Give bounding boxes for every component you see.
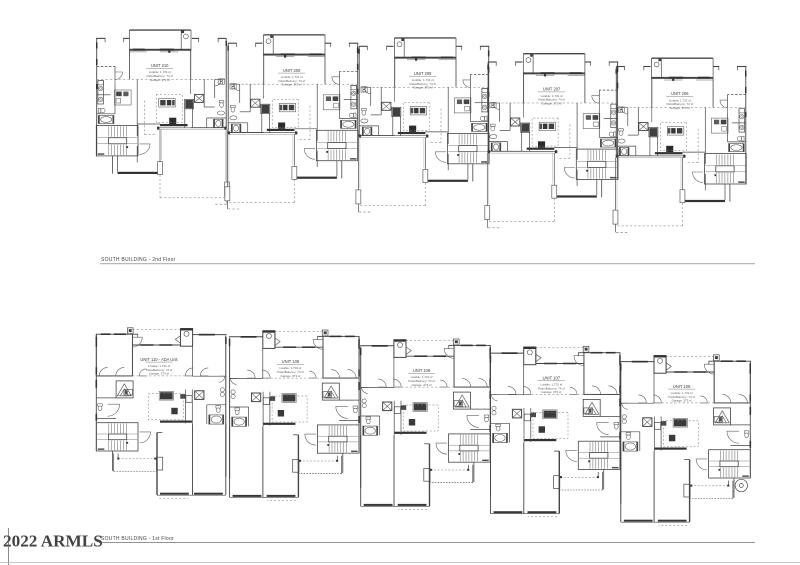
svg-text:UNIT 207: UNIT 207	[543, 87, 561, 92]
svg-text:Garage: 373 sf: Garage: 373 sf	[672, 399, 692, 403]
bottom rule	[0, 562, 800, 564]
unit 108 floor plan (1st floor)	[360, 339, 491, 510]
unit 110 floor plan (1st floor)	[96, 328, 227, 499]
rule line 2nd floor	[100, 263, 755, 265]
svg-text:UNIT 208: UNIT 208	[414, 71, 432, 76]
left margin tick	[8, 528, 10, 565]
svg-text:2022 ARMLS: 2022 ARMLS	[3, 532, 103, 551]
unit 208 floor plan (2nd floor)	[356, 37, 490, 212]
svg-text:UNIT 206: UNIT 206	[671, 91, 689, 96]
svg-text:UNIT 210: UNIT 210	[151, 63, 169, 68]
svg-text:Garage: 373 sf: Garage: 373 sf	[670, 106, 690, 110]
spiral stair circle unit 106	[735, 479, 747, 491]
rule line 1st floor	[99, 542, 755, 544]
unit 109 floor plan (1st floor)	[229, 330, 360, 501]
svg-text:SOUTH BUILDING - 2nd Floor: SOUTH BUILDING - 2nd Floor	[101, 257, 176, 263]
svg-text:Garage: 373 sf: Garage: 373 sf	[413, 86, 433, 90]
svg-text:UNIT 209: UNIT 209	[283, 68, 301, 73]
svg-text:SOUTH BUILDING - 1st Floor: SOUTH BUILDING - 1st Floor	[101, 536, 174, 542]
svg-text:UNIT 106: UNIT 106	[673, 384, 691, 389]
svg-text:Garage: 373 sf: Garage: 373 sf	[412, 383, 432, 387]
svg-text:UNIT 107: UNIT 107	[543, 375, 561, 380]
svg-text:UNIT 110 - ADA Unit: UNIT 110 - ADA Unit	[140, 357, 178, 362]
svg-text:Garage: 373 sf: Garage: 373 sf	[282, 83, 302, 87]
svg-text:Garage: 373 sf: Garage: 373 sf	[150, 78, 170, 82]
svg-text:UNIT 109: UNIT 109	[282, 359, 300, 364]
unit 206 floor plan (2nd floor)	[613, 58, 747, 233]
unit 207 floor plan (2nd floor)	[485, 53, 619, 228]
unit 210 floor plan (2nd floor)	[96, 29, 230, 204]
unit 106 floor plan (1st floor)	[620, 355, 751, 526]
svg-text:Garage: 373 sf: Garage: 373 sf	[542, 101, 562, 105]
svg-text:Garage: 373 sf: Garage: 373 sf	[149, 372, 169, 376]
svg-text:UNIT 108: UNIT 108	[413, 368, 431, 373]
unit 107 floor plan (1st floor)	[490, 346, 621, 517]
unit 209 floor plan (2nd floor)	[225, 34, 359, 209]
svg-text:Garage: 373 sf: Garage: 373 sf	[541, 390, 561, 394]
svg-text:Garage: 373 sf: Garage: 373 sf	[280, 374, 300, 378]
